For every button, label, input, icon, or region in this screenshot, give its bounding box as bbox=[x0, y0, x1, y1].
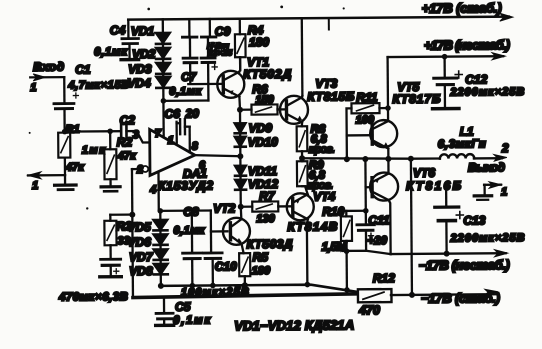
svg-text:КТ814В: КТ814В bbox=[287, 219, 337, 233]
svg-text:VD9: VD9 bbox=[249, 121, 273, 135]
wire +17V stab top rail bbox=[128, 17, 508, 20]
transistor VT5 KT817B bbox=[370, 120, 397, 147]
svg-text:3: 3 bbox=[133, 129, 139, 141]
svg-text:0,1мк: 0,1мк bbox=[94, 46, 128, 58]
svg-text:8: 8 bbox=[192, 141, 199, 153]
svg-text:C6: C6 bbox=[164, 107, 180, 121]
node output R8/R9 bbox=[301, 151, 303, 161]
svg-text:С13: С13 bbox=[463, 213, 485, 227]
wire R10/C11 bottom bar to -nestab corner bbox=[343, 251, 391, 255]
svg-text:2: 2 bbox=[501, 141, 509, 155]
resistor R5 bbox=[239, 253, 250, 276]
transistor VT4 KT814V bbox=[287, 193, 314, 220]
svg-text:0,1мк: 0,1мк bbox=[173, 225, 206, 237]
diode VD12 bbox=[235, 180, 246, 190]
svg-text:150: 150 bbox=[255, 94, 274, 106]
ground under R1 bbox=[64, 175, 66, 183]
capacitor C11 bbox=[365, 211, 367, 223]
svg-text:VD6: VD6 bbox=[127, 235, 151, 249]
svg-text:R12: R12 bbox=[373, 271, 395, 285]
diode VD3 bbox=[156, 63, 170, 73]
wire node pin7 junction bbox=[163, 99, 208, 102]
diode VD5 bbox=[159, 211, 161, 220]
diode VD2 bbox=[156, 48, 170, 58]
wire inverting column bbox=[132, 169, 133, 297]
svg-text:1: 1 bbox=[30, 82, 36, 94]
resistor R1 bbox=[62, 129, 68, 135]
resistor R11 bbox=[351, 103, 379, 113]
svg-text:47к: 47к bbox=[65, 161, 85, 173]
opamp pin7 stub bbox=[162, 101, 165, 136]
svg-text:0,1мк: 0,1мк bbox=[173, 314, 211, 326]
node opamp output junction bbox=[237, 153, 243, 159]
wire -17V stab rail right bbox=[391, 293, 498, 296]
wire ground return arrow bbox=[28, 174, 65, 177]
svg-text:R10: R10 bbox=[322, 204, 344, 218]
svg-text:R7: R7 bbox=[259, 189, 276, 203]
transistor VT2 KT503D bbox=[223, 218, 250, 245]
svg-text:VT2: VT2 bbox=[213, 201, 235, 215]
svg-text:1: 1 bbox=[168, 135, 174, 147]
ground terminal arrow mid right bbox=[484, 184, 501, 186]
svg-text:L1: L1 bbox=[460, 124, 474, 138]
svg-text:VD4: VD4 bbox=[127, 76, 151, 90]
svg-text:2: 2 bbox=[136, 164, 143, 176]
resistor R2 bbox=[107, 128, 113, 134]
svg-text:+17В (стаб.): +17В (стаб.) bbox=[422, 0, 502, 16]
svg-text:−17В (стаб.): −17В (стаб.) bbox=[421, 290, 500, 306]
svg-text:R5: R5 bbox=[253, 250, 269, 264]
capacitor C8 bbox=[191, 211, 194, 252]
capacitor C2 bbox=[65, 130, 120, 133]
svg-text:180: 180 bbox=[249, 35, 269, 49]
diode VD7 bbox=[154, 249, 168, 259]
resistor R7 bbox=[241, 205, 252, 207]
svg-text:VD10: VD10 bbox=[248, 135, 278, 149]
resistor R6 bbox=[240, 109, 251, 111]
svg-text:VD7: VD7 bbox=[129, 250, 154, 264]
capacitor C13 bbox=[445, 187, 447, 205]
resistor R10 and capacitor C11 bbox=[341, 210, 365, 212]
capacitor C1 bbox=[63, 77, 65, 102]
svg-text:C9: C9 bbox=[215, 24, 231, 38]
svg-text:4: 4 bbox=[149, 184, 156, 196]
transistor VT6 KT816B bbox=[370, 173, 398, 201]
svg-text:2200мк×25В: 2200мк×25В bbox=[449, 232, 524, 245]
svg-text:0,1мк: 0,1мк bbox=[169, 86, 203, 98]
svg-text:VD2: VD2 bbox=[132, 47, 156, 61]
svg-text:C7: C7 bbox=[181, 72, 196, 84]
diode VD6 bbox=[153, 234, 167, 244]
svg-text:КТ817Б: КТ817Б bbox=[392, 92, 441, 106]
svg-text:C2: C2 bbox=[120, 113, 136, 127]
svg-text:C1: C1 bbox=[75, 62, 91, 76]
svg-text:47к: 47к bbox=[117, 150, 137, 162]
op-amp DA1 K153UD2 bbox=[150, 129, 195, 175]
svg-text:R1: R1 bbox=[66, 124, 80, 136]
svg-text:КТ816Б: КТ816Б bbox=[406, 179, 462, 193]
svg-text:−17В (нестаб.): −17В (нестаб.) bbox=[419, 257, 510, 273]
capacitor C9 bbox=[209, 19, 211, 35]
svg-text:22×25: 22×25 bbox=[207, 48, 233, 57]
wire -17V stab bus lower bbox=[133, 294, 357, 298]
svg-text:130: 130 bbox=[256, 213, 275, 225]
node VD8 bottom bbox=[158, 283, 164, 289]
opamp output pin 6 bbox=[195, 155, 241, 157]
svg-text:VD1: VD1 bbox=[131, 24, 155, 38]
svg-text:1мк: 1мк bbox=[82, 144, 107, 156]
resistor R8 bbox=[297, 126, 308, 151]
node output to feedback column bbox=[408, 156, 414, 162]
wire VT2 base bbox=[211, 230, 227, 232]
svg-text:VD8: VD8 bbox=[129, 264, 153, 278]
svg-text:КТ815Б: КТ815Б bbox=[307, 89, 355, 103]
svg-text:КТ503Д: КТ503Д bbox=[246, 237, 292, 251]
svg-text:2200мк×25В: 2200мк×25В bbox=[449, 86, 524, 99]
svg-text:R2: R2 bbox=[117, 135, 133, 149]
diode VD8 bbox=[154, 264, 168, 274]
opamp pin4 stub bbox=[158, 172, 160, 211]
svg-text:С12: С12 bbox=[465, 72, 487, 86]
svg-text:C5: C5 bbox=[175, 300, 191, 314]
capacitor C3 bbox=[109, 245, 111, 257]
wire output line bbox=[302, 157, 440, 159]
ground under R2 bbox=[109, 179, 111, 185]
diode VD1 bbox=[156, 33, 170, 43]
capacitor C10 bbox=[210, 210, 213, 251]
node VD12 / R7 / VT2 collector bbox=[238, 204, 244, 210]
capacitor C7 bbox=[188, 19, 190, 35]
capacitor C5 bbox=[163, 297, 165, 311]
resistor R12 bbox=[358, 289, 392, 302]
svg-text:C8: C8 bbox=[183, 205, 199, 219]
svg-text:7: 7 bbox=[155, 128, 162, 140]
resistor R4 bbox=[239, 19, 241, 34]
node pin4 bar bbox=[160, 209, 210, 212]
svg-text:К153УД2: К153УД2 bbox=[158, 178, 213, 192]
capacitor C6 and pins 1,8 bbox=[175, 122, 177, 143]
resistor R3 bbox=[109, 215, 111, 221]
svg-text:пров.: пров. bbox=[309, 143, 335, 155]
wire -17V stab bus upper bbox=[161, 284, 357, 293]
transistor VT1 KT502D bbox=[217, 71, 244, 98]
svg-text:VD3: VD3 bbox=[128, 62, 152, 76]
svg-text:1: 1 bbox=[32, 180, 38, 192]
wire VT3 collector column bbox=[301, 18, 304, 95]
svg-text:С11: С11 bbox=[368, 213, 390, 227]
diode VD10 bbox=[239, 133, 241, 136]
diode VD9 bbox=[239, 110, 241, 122]
svg-text:180: 180 bbox=[252, 265, 271, 277]
svg-text:КТ502Д: КТ502Д bbox=[243, 67, 291, 81]
svg-text:+17В (нестаб.): +17В (нестаб.) bbox=[424, 37, 510, 53]
svg-text:C10: C10 bbox=[215, 259, 237, 273]
capacitor C4 bbox=[127, 20, 129, 37]
svg-text:20: 20 bbox=[184, 107, 199, 121]
svg-text:6,3мкГн: 6,3мкГн bbox=[438, 138, 486, 150]
svg-text:470мк×6,3В: 470мк×6,3В bbox=[58, 291, 128, 304]
wire -17V nestab rail bbox=[391, 252, 506, 255]
diode VD11 bbox=[235, 166, 246, 176]
svg-text:VD1−VD12 КД521А: VD1−VD12 КД521А bbox=[234, 317, 354, 333]
wire VT1 base bar feed bbox=[188, 83, 221, 86]
transistor VT3 KT815B bbox=[280, 96, 308, 124]
diode VD4 bbox=[156, 77, 170, 87]
svg-text:+20: +20 bbox=[367, 235, 387, 247]
node VT1 emitter / R6 / VD9 bbox=[237, 107, 243, 113]
inductor L1 bbox=[440, 154, 474, 159]
node VT4 collector to bus bbox=[305, 282, 311, 288]
svg-text:C4: C4 bbox=[110, 23, 126, 37]
svg-text:1: 1 bbox=[501, 186, 507, 198]
svg-text:4,7мк×15В: 4,7мк×15В bbox=[67, 79, 129, 91]
svg-text:470: 470 bbox=[358, 303, 380, 317]
svg-text:R11: R11 bbox=[356, 90, 378, 104]
svg-text:VD5: VD5 bbox=[127, 220, 151, 234]
svg-text:VT4: VT4 bbox=[313, 189, 335, 203]
svg-text:Выход: Выход bbox=[468, 160, 505, 174]
capacitor C12 bbox=[443, 57, 445, 77]
wire VD1 chain stem from rail bbox=[162, 19, 164, 32]
node R3 tap bbox=[129, 212, 135, 218]
resistor R9 bbox=[297, 161, 308, 186]
node inverting input bubble bbox=[132, 168, 142, 170]
svg-text:Вход: Вход bbox=[33, 60, 64, 74]
wire +17V nestab rail bbox=[388, 55, 503, 58]
